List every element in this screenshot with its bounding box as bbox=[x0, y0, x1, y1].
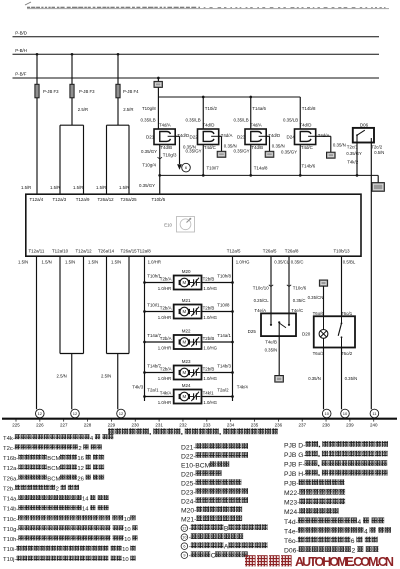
lock motor M20 (left front door) bbox=[143, 269, 234, 291]
svg-text:T10h-: T10h- bbox=[3, 537, 18, 543]
svg-text:D21: D21 bbox=[146, 135, 155, 140]
svg-text:T10i/7: T10i/7 bbox=[207, 165, 220, 170]
svg-text:M20-: M20- bbox=[181, 508, 196, 515]
svg-text:T10c/6: T10c/6 bbox=[293, 285, 307, 290]
ground 12 (2) bbox=[71, 409, 80, 418]
BCM top pin labels bbox=[30, 197, 166, 202]
wire: bus end to termination connector bbox=[377, 175, 379, 182]
ground 12 (3) bbox=[117, 409, 126, 418]
svg-text:T4d/C: T4d/C bbox=[204, 145, 216, 150]
svg-text:T2b/A: T2b/A bbox=[160, 277, 172, 282]
svg-text:P-B/F: P-B/F bbox=[15, 72, 27, 77]
svg-text:PJB G-: PJB G- bbox=[284, 452, 306, 459]
svg-text:1.0/HR: 1.0/HR bbox=[158, 400, 171, 405]
svg-text:0.5/BL: 0.5/BL bbox=[343, 259, 356, 264]
svg-text:226: 226 bbox=[36, 423, 44, 428]
svg-text:10: 10 bbox=[122, 557, 129, 563]
connector termination below D25 bbox=[275, 376, 284, 383]
wire: D23 right pin to termination, 0.35/N bbox=[266, 136, 285, 151]
svg-text:T14b/8: T14b/8 bbox=[302, 106, 316, 111]
wire: bus P-B/H bbox=[13, 48, 380, 54]
svg-text:234: 234 bbox=[227, 423, 235, 428]
svg-text:0.35/CL: 0.35/CL bbox=[274, 259, 290, 264]
svg-text:6: 6 bbox=[351, 538, 355, 545]
svg-text:26: 26 bbox=[77, 476, 84, 482]
svg-text:12: 12 bbox=[73, 411, 78, 416]
svg-text:T4d/A: T4d/A bbox=[159, 122, 171, 127]
wire: distribution bar to door ajar switches bbox=[158, 96, 300, 98]
svg-text:T4d-: T4d- bbox=[284, 519, 298, 526]
fuse P-JB F3 (middle) bbox=[70, 84, 95, 112]
header: tiny scan header text line bbox=[27, 7, 389, 8]
svg-text:T12a/11: T12a/11 bbox=[29, 249, 45, 254]
svg-text:T12a-: T12a- bbox=[3, 466, 18, 472]
svg-text:1.5/N: 1.5/N bbox=[111, 260, 121, 265]
svg-text:P-JB F3: P-JB F3 bbox=[43, 89, 59, 94]
svg-text:T14b/3: T14b/3 bbox=[217, 364, 231, 369]
svg-text:2.5/N: 2.5/N bbox=[57, 374, 67, 379]
svg-text:237: 237 bbox=[298, 423, 306, 428]
svg-text:2.5/R: 2.5/R bbox=[78, 107, 88, 112]
wire: D21 right pin to ground arrow, 0.35/N bbox=[175, 136, 196, 164]
wire: fuse1 output to BCM pin T12a/4 bbox=[36, 98, 38, 194]
svg-text:0.35/N: 0.35/N bbox=[265, 347, 278, 352]
svg-text:D25-: D25- bbox=[181, 481, 196, 488]
svg-text:T4d/A: T4d/A bbox=[221, 133, 233, 138]
legend middle column bbox=[181, 443, 268, 559]
svg-text:T10g-: T10g- bbox=[3, 527, 18, 533]
svg-text:9: 9 bbox=[183, 554, 185, 558]
bottom reference rail bbox=[2, 418, 397, 420]
lock motor M22 (left rear door) bbox=[143, 329, 234, 351]
wire: D06 T2c/1 to bus, 0.35/GY T4k/2 bbox=[346, 143, 362, 177]
BCM body control module box (T12a/T26a/T10b) bbox=[26, 194, 361, 256]
svg-text:T4d/D: T4d/D bbox=[202, 122, 214, 127]
svg-text:4: 4 bbox=[90, 436, 94, 442]
svg-text:T6o/6: T6o/6 bbox=[313, 311, 325, 316]
svg-text:T26a/25: T26a/25 bbox=[121, 197, 138, 202]
svg-text:T10i/1: T10i/1 bbox=[147, 303, 160, 308]
connector: inline feed connector box bbox=[154, 81, 162, 87]
svg-text:BCM: BCM bbox=[47, 466, 60, 472]
svg-text:T2b/B: T2b/B bbox=[203, 277, 215, 282]
lamp symbol inside D20 bbox=[319, 316, 328, 347]
wire: D21 bottom to BCM T10b/5, labels 0.35/GY T10g/3 T10g/4 bbox=[139, 145, 177, 195]
svg-text:T6o-: T6o- bbox=[284, 538, 298, 545]
svg-text:10: 10 bbox=[122, 547, 129, 553]
svg-text:T4k/4: T4k/4 bbox=[237, 384, 249, 389]
svg-text:T4d/C: T4d/C bbox=[301, 145, 313, 150]
svg-text:1.0/HG: 1.0/HG bbox=[203, 346, 217, 351]
micro-switch D24 (right rear door ajar switch) bbox=[287, 122, 330, 149]
svg-text:12: 12 bbox=[38, 411, 43, 416]
svg-text:T26a/14: T26a/14 bbox=[98, 249, 115, 254]
wire: D20 T6o/3 to ground, 0.35/N bbox=[308, 348, 323, 410]
svg-text:T4e/C: T4e/C bbox=[291, 308, 303, 313]
svg-text:T2b/A: T2b/A bbox=[160, 306, 172, 311]
label: 1.5/R wire gauges bbox=[21, 185, 129, 190]
svg-text:T14a/8: T14a/8 bbox=[254, 165, 268, 170]
svg-text:1.5/N: 1.5/N bbox=[42, 260, 52, 265]
wire: lock motor bus right 1.0/HG from T12a/5 bbox=[233, 256, 251, 401]
wire: BCM T26a/5 to D25, labels 0.35/CL T10c/10 0.25/CL bbox=[253, 256, 290, 325]
svg-text:14: 14 bbox=[82, 507, 89, 513]
lock motor M21 (right front door) bbox=[143, 298, 234, 320]
svg-text:T10g/3: T10g/3 bbox=[163, 153, 177, 158]
wire: D22 bottom to bus, 0.35/GY T10i/7 bbox=[186, 145, 220, 177]
wire: D23 bottom to bus, 0.35/GY T14a/8 bbox=[234, 145, 269, 177]
svg-text:T4k/A: T4k/A bbox=[160, 391, 172, 396]
connector termination for D24 bbox=[327, 152, 336, 158]
svg-text:-: - bbox=[189, 535, 191, 542]
svg-text:PJB F-: PJB F- bbox=[284, 462, 305, 469]
svg-text:D22-: D22- bbox=[181, 453, 196, 460]
wire: D24 bottom to bus, 0.35/GY T14b/6 bbox=[281, 145, 316, 177]
switch D06 (tailgate open indicator switch) bbox=[353, 122, 374, 142]
wire: BCM T26a/8 to D25, labels 0.35/C T10c/6 0.35/C bbox=[287, 256, 307, 325]
svg-text:2: 2 bbox=[56, 486, 59, 492]
ground 10 (right) bbox=[341, 409, 350, 418]
svg-text:12: 12 bbox=[119, 411, 124, 416]
header stub mark top-left bbox=[25, 2, 31, 5]
svg-text:1.5/N: 1.5/N bbox=[88, 260, 98, 265]
svg-text:T12a/8: T12a/8 bbox=[137, 249, 151, 254]
svg-text:0.35/GY: 0.35/GY bbox=[139, 183, 155, 188]
wire: drop to D23 with label T14a/6 0.35/LB bbox=[234, 96, 267, 129]
svg-text:1.0/HG: 1.0/HG bbox=[203, 376, 217, 381]
ground 11 bottom right bbox=[370, 409, 379, 418]
svg-text:M: M bbox=[182, 394, 186, 399]
svg-text:10: 10 bbox=[124, 527, 131, 533]
svg-text:T10b/5: T10b/5 bbox=[152, 197, 166, 202]
wire: drop to D22 with label T10i/2 0.35/LB bbox=[186, 96, 218, 129]
ground 10 (left) bbox=[322, 409, 331, 418]
svg-text:T4e/B: T4e/B bbox=[265, 340, 277, 345]
svg-text:T4e-: T4e- bbox=[284, 528, 298, 535]
svg-text:T2c/1: T2c/1 bbox=[347, 145, 359, 150]
svg-text:D24: D24 bbox=[287, 135, 296, 140]
legend right column bbox=[284, 441, 391, 554]
svg-text:231: 231 bbox=[155, 423, 163, 428]
svg-text:1.5/R: 1.5/R bbox=[50, 185, 60, 190]
svg-text:0.35/N: 0.35/N bbox=[345, 376, 358, 381]
svg-text:M23: M23 bbox=[182, 359, 191, 364]
svg-text:1.0/HR: 1.0/HR bbox=[158, 346, 171, 351]
svg-text:T12a/5: T12a/5 bbox=[227, 249, 241, 254]
svg-text:T14b/6: T14b/6 bbox=[302, 164, 316, 169]
svg-text:T10h/8: T10h/8 bbox=[217, 274, 231, 279]
svg-text:235: 235 bbox=[251, 423, 259, 428]
svg-text:1.0/HR: 1.0/HR bbox=[158, 376, 171, 381]
connector termination of door-ajar bus bbox=[372, 183, 384, 192]
svg-text:T4d/B: T4d/B bbox=[251, 145, 263, 150]
svg-text:T26a/8: T26a/8 bbox=[285, 249, 299, 254]
svg-text:T10j-: T10j- bbox=[3, 557, 16, 563]
svg-text:T12a/4: T12a/4 bbox=[30, 197, 44, 202]
connector termination for D23 bbox=[265, 151, 274, 157]
svg-text:10: 10 bbox=[124, 517, 131, 523]
fuse P-JB F4 bbox=[116, 84, 139, 112]
svg-text:2: 2 bbox=[78, 446, 81, 452]
svg-text:M23-: M23- bbox=[284, 500, 299, 507]
legend left column bbox=[3, 434, 138, 563]
svg-text:D25: D25 bbox=[248, 329, 257, 334]
svg-text:P-B/D: P-B/D bbox=[15, 30, 27, 35]
svg-text:T2a/1: T2a/1 bbox=[147, 388, 159, 393]
svg-text:BCM: BCM bbox=[47, 476, 60, 482]
svg-text:T26a/12: T26a/12 bbox=[98, 197, 115, 202]
svg-text:B: B bbox=[224, 526, 229, 533]
wire: D06 T2c/2 down to ground, 0.5/N bbox=[371, 143, 384, 410]
svg-text:0.35/N: 0.35/N bbox=[333, 142, 346, 147]
svg-text:0.35/LB: 0.35/LB bbox=[186, 118, 201, 123]
BCM icon E10 (central locking icon) bbox=[164, 217, 194, 233]
svg-text:D06: D06 bbox=[360, 122, 369, 127]
svg-text:2: 2 bbox=[352, 548, 356, 555]
svg-text:T6o/2: T6o/2 bbox=[341, 351, 353, 356]
svg-text:T6o/1: T6o/1 bbox=[341, 311, 353, 316]
switch symbol inside D20 bbox=[338, 316, 342, 347]
svg-text:2.5/R: 2.5/R bbox=[123, 107, 133, 112]
svg-text:T14a/1: T14a/1 bbox=[217, 333, 231, 338]
svg-text:M20: M20 bbox=[182, 269, 191, 274]
svg-text:1.5/N: 1.5/N bbox=[18, 260, 28, 265]
svg-text:0.35/LB: 0.35/LB bbox=[283, 118, 298, 123]
svg-text:M21-: M21- bbox=[181, 517, 196, 524]
svg-text:T10g/8: T10g/8 bbox=[142, 106, 156, 111]
svg-text:1.0/HR: 1.0/HR bbox=[148, 260, 161, 265]
svg-text:E10-BCM: E10-BCM bbox=[181, 462, 211, 469]
svg-text:1.0/HR: 1.0/HR bbox=[158, 315, 171, 320]
svg-text:T10c-: T10c- bbox=[3, 517, 18, 523]
caption text bbox=[108, 428, 278, 434]
svg-text:T10g/4: T10g/4 bbox=[142, 163, 156, 168]
svg-text:AUTOHOME.COM.CN: AUTOHOME.COM.CN bbox=[295, 555, 394, 569]
svg-text:10: 10 bbox=[124, 537, 131, 543]
svg-text:T14a/6: T14a/6 bbox=[252, 106, 266, 111]
svg-text:1.5/R: 1.5/R bbox=[96, 185, 106, 190]
connector termination for D22 bbox=[217, 151, 226, 157]
svg-text:T16b-: T16b- bbox=[3, 456, 18, 462]
svg-text:T2b/A: T2b/A bbox=[160, 367, 172, 372]
svg-text:1.5/R: 1.5/R bbox=[119, 185, 129, 190]
wire: P-B/H to fuse P-JB F3 drop 1 bbox=[36, 53, 39, 84]
svg-text:T12a/3: T12a/3 bbox=[53, 197, 67, 202]
wire: P-B/H to fuse P-JB F3 drop 2 bbox=[71, 53, 74, 84]
svg-text:T2b-: T2b- bbox=[3, 486, 15, 492]
rail section ticks and numbers 225-240 bbox=[12, 419, 378, 428]
svg-text:T2a/2: T2a/2 bbox=[217, 388, 229, 393]
svg-text:240: 240 bbox=[370, 423, 378, 428]
svg-text:2.5/N: 2.5/N bbox=[101, 374, 111, 379]
svg-text:M21: M21 bbox=[182, 298, 191, 303]
wire: lock motor bus left 1.0/HR from T12a/8 bbox=[132, 256, 161, 401]
svg-text:M: M bbox=[182, 309, 186, 314]
svg-text:1.0/HG: 1.0/HG bbox=[203, 315, 217, 320]
svg-text:-: - bbox=[189, 526, 191, 533]
fuse P-JB F3 (left) bbox=[35, 84, 59, 98]
svg-text:T4d/B: T4d/B bbox=[160, 145, 172, 150]
svg-text:T12a/10: T12a/10 bbox=[52, 249, 69, 254]
svg-text:4: 4 bbox=[364, 528, 368, 535]
svg-text:D23-: D23- bbox=[181, 490, 196, 497]
wire: BCM T26a/14 + T26a/15 merged ground wires 1.5/N 2.5/N bbox=[88, 256, 129, 409]
BCM bottom pin labels bbox=[29, 249, 351, 254]
svg-text:T4d/A: T4d/A bbox=[318, 133, 330, 138]
svg-text:0.35/GY: 0.35/GY bbox=[281, 149, 297, 154]
wire: termination to D20 T6o/6, 0.35/CN bbox=[308, 286, 324, 316]
svg-text:P-B/H: P-B/H bbox=[15, 48, 27, 53]
svg-text:M24-: M24- bbox=[284, 509, 299, 516]
svg-text:D23: D23 bbox=[237, 135, 246, 140]
svg-text:228: 228 bbox=[84, 423, 92, 428]
svg-text:16: 16 bbox=[77, 456, 84, 462]
wire: D20 T6o/2 to ground, 0.35/N bbox=[342, 348, 358, 410]
svg-text:T12a/12: T12a/12 bbox=[76, 249, 93, 254]
svg-text:T4k/3: T4k/3 bbox=[132, 384, 144, 389]
ground 12 (1) bbox=[36, 409, 45, 418]
svg-text:T4d/D: T4d/D bbox=[299, 122, 311, 127]
wire: bus P-B/D bbox=[13, 30, 380, 36]
svg-text:0.35/GY: 0.35/GY bbox=[346, 151, 362, 156]
svg-text:0.35/GY: 0.35/GY bbox=[186, 148, 202, 153]
svg-text:T26a/15: T26a/15 bbox=[121, 249, 138, 254]
svg-text:T4k/2: T4k/2 bbox=[347, 160, 359, 165]
svg-text:T4k/1: T4k/1 bbox=[203, 391, 215, 396]
svg-text:232: 232 bbox=[179, 423, 187, 428]
svg-text:T2c-: T2c- bbox=[3, 446, 15, 452]
micro-switch D21 (left front door ajar switch) bbox=[146, 122, 189, 149]
svg-text:1.0/HG: 1.0/HG bbox=[203, 400, 217, 405]
wire: fuse3 output split bar to pins T26a/12 and T26a/25 bbox=[107, 98, 130, 194]
svg-text:P-JB F3: P-JB F3 bbox=[79, 89, 95, 94]
svg-text:10: 10 bbox=[182, 536, 186, 540]
wire: D24 right pin to termination, 0.35/N bbox=[316, 136, 346, 152]
svg-text:0.35/C: 0.35/C bbox=[293, 298, 306, 303]
svg-text:M24: M24 bbox=[182, 383, 191, 388]
warning lamp module D20 bbox=[302, 311, 355, 356]
wire: BCM T12a/11 ground wire 1.5/N bbox=[18, 256, 37, 409]
svg-text:227: 227 bbox=[60, 423, 68, 428]
svg-text:233: 233 bbox=[203, 423, 211, 428]
svg-text:0.35/N: 0.35/N bbox=[272, 143, 285, 148]
svg-text:0.5/N: 0.5/N bbox=[374, 150, 384, 155]
svg-text:PJB-: PJB- bbox=[284, 481, 299, 488]
svg-text:T4k-: T4k- bbox=[3, 436, 15, 442]
svg-text:P-JB F4: P-JB F4 bbox=[123, 89, 139, 94]
central locking switch D25 (left front door) bbox=[248, 313, 296, 336]
svg-text:236: 236 bbox=[275, 423, 283, 428]
wire: P-B/F feed drop to door switch bus bbox=[157, 77, 160, 97]
svg-text:10: 10 bbox=[324, 411, 329, 416]
svg-text:1.0/HR: 1.0/HR bbox=[158, 286, 171, 291]
svg-text:-: - bbox=[189, 553, 191, 560]
svg-text:PJB H-: PJB H- bbox=[284, 471, 305, 478]
wire: D25 T4e/B to termination, 0.35/N bbox=[265, 336, 280, 375]
svg-text:T10c/10: T10c/10 bbox=[253, 285, 269, 290]
svg-text:-: - bbox=[189, 544, 191, 551]
svg-text:T2b/B: T2b/B bbox=[203, 367, 215, 372]
svg-text:0.35/C: 0.35/C bbox=[291, 259, 304, 264]
svg-text:1.5/R: 1.5/R bbox=[73, 185, 83, 190]
svg-text:0.35/GY: 0.35/GY bbox=[234, 148, 250, 153]
wire: door-ajar signal bus bbox=[158, 174, 378, 177]
wire: drop to D24 with label T14b/8 0.35/LB bbox=[283, 97, 316, 129]
wire: drop to D21 with label T10g/8 0.35/LB bbox=[141, 97, 159, 129]
wire: D22 right pin to termination, 0.35/N bbox=[219, 136, 237, 151]
svg-text:M: M bbox=[182, 280, 186, 285]
svg-text:T10i-: T10i- bbox=[3, 547, 16, 553]
svg-text:238: 238 bbox=[322, 423, 330, 428]
svg-text:1.0/HG: 1.0/HG bbox=[203, 286, 217, 291]
svg-text:M22: M22 bbox=[182, 329, 191, 334]
svg-text:T26a-: T26a- bbox=[3, 476, 18, 482]
lock motor M23 (right rear door) bbox=[143, 359, 234, 381]
svg-text:D20-: D20- bbox=[181, 472, 196, 479]
svg-text:T2b/A: T2b/A bbox=[160, 336, 172, 341]
svg-text:D22: D22 bbox=[190, 135, 199, 140]
svg-text:T2b/B: T2b/B bbox=[203, 336, 215, 341]
svg-text:PJB D-: PJB D- bbox=[284, 442, 305, 449]
svg-text:12: 12 bbox=[77, 466, 84, 472]
svg-text:4: 4 bbox=[357, 519, 361, 526]
watermark autohome bbox=[245, 555, 394, 569]
svg-text:E10: E10 bbox=[164, 222, 172, 227]
svg-text:0.35/CN: 0.35/CN bbox=[308, 295, 324, 300]
svg-text:D21-: D21- bbox=[181, 444, 196, 451]
micro-switch D22 (right front door ajar switch) bbox=[190, 122, 233, 149]
wire: bus P-B/F bbox=[13, 72, 380, 78]
svg-text:239: 239 bbox=[346, 423, 354, 428]
svg-text:0.35/GY: 0.35/GY bbox=[141, 149, 157, 154]
svg-text:T6o/3: T6o/3 bbox=[313, 351, 325, 356]
svg-text:1.5/N: 1.5/N bbox=[65, 260, 75, 265]
micro-switch D23 (left rear door ajar switch) bbox=[237, 122, 280, 149]
svg-text:T10b/13: T10b/13 bbox=[334, 249, 351, 254]
svg-text:D20: D20 bbox=[302, 331, 311, 336]
svg-text:10: 10 bbox=[343, 411, 348, 416]
wire: BCM T10b/13 to D20 T6o/1, 0.5/BL bbox=[342, 256, 356, 316]
wire: P-B/H to fuse P-JB F4 drop 3 bbox=[117, 53, 120, 84]
svg-text:T14a-: T14a- bbox=[3, 497, 18, 503]
svg-text:0.35/LB: 0.35/LB bbox=[234, 118, 249, 123]
svg-text:T10i/2: T10i/2 bbox=[205, 106, 218, 111]
connector termination feeding D20 bbox=[319, 280, 327, 286]
svg-text:14: 14 bbox=[82, 497, 89, 503]
svg-text:225: 225 bbox=[12, 423, 20, 428]
svg-text:T26a/5: T26a/5 bbox=[263, 249, 277, 254]
lock motor M24 (tailgate) bbox=[143, 383, 234, 405]
svg-text:T4e/A: T4e/A bbox=[254, 308, 266, 313]
wire: fuse2 output split bar to pins T12a/3 and T12a/9 bbox=[60, 98, 84, 194]
svg-text:0.35/LB: 0.35/LB bbox=[141, 118, 156, 123]
svg-text:230: 230 bbox=[131, 423, 139, 428]
svg-text:D24-: D24- bbox=[181, 499, 196, 506]
svg-text:1.5/R: 1.5/R bbox=[21, 185, 31, 190]
svg-text:BCM: BCM bbox=[47, 456, 60, 462]
svg-text:A: A bbox=[224, 544, 229, 551]
wire: BCM T12a/10 + T12a/12 merged ground wires 1.5/N 2.5/N bbox=[42, 256, 84, 409]
svg-text:D06-: D06- bbox=[284, 548, 299, 555]
svg-text:T12a/9: T12a/9 bbox=[76, 197, 90, 202]
svg-text:M22-: M22- bbox=[284, 490, 299, 497]
svg-text:C: C bbox=[211, 553, 216, 560]
svg-text:M: M bbox=[182, 370, 186, 375]
svg-text:6: 6 bbox=[183, 545, 185, 549]
svg-text:12: 12 bbox=[182, 527, 186, 531]
svg-text:1.0/HG: 1.0/HG bbox=[236, 260, 250, 265]
svg-text:T14b-: T14b- bbox=[3, 507, 18, 513]
